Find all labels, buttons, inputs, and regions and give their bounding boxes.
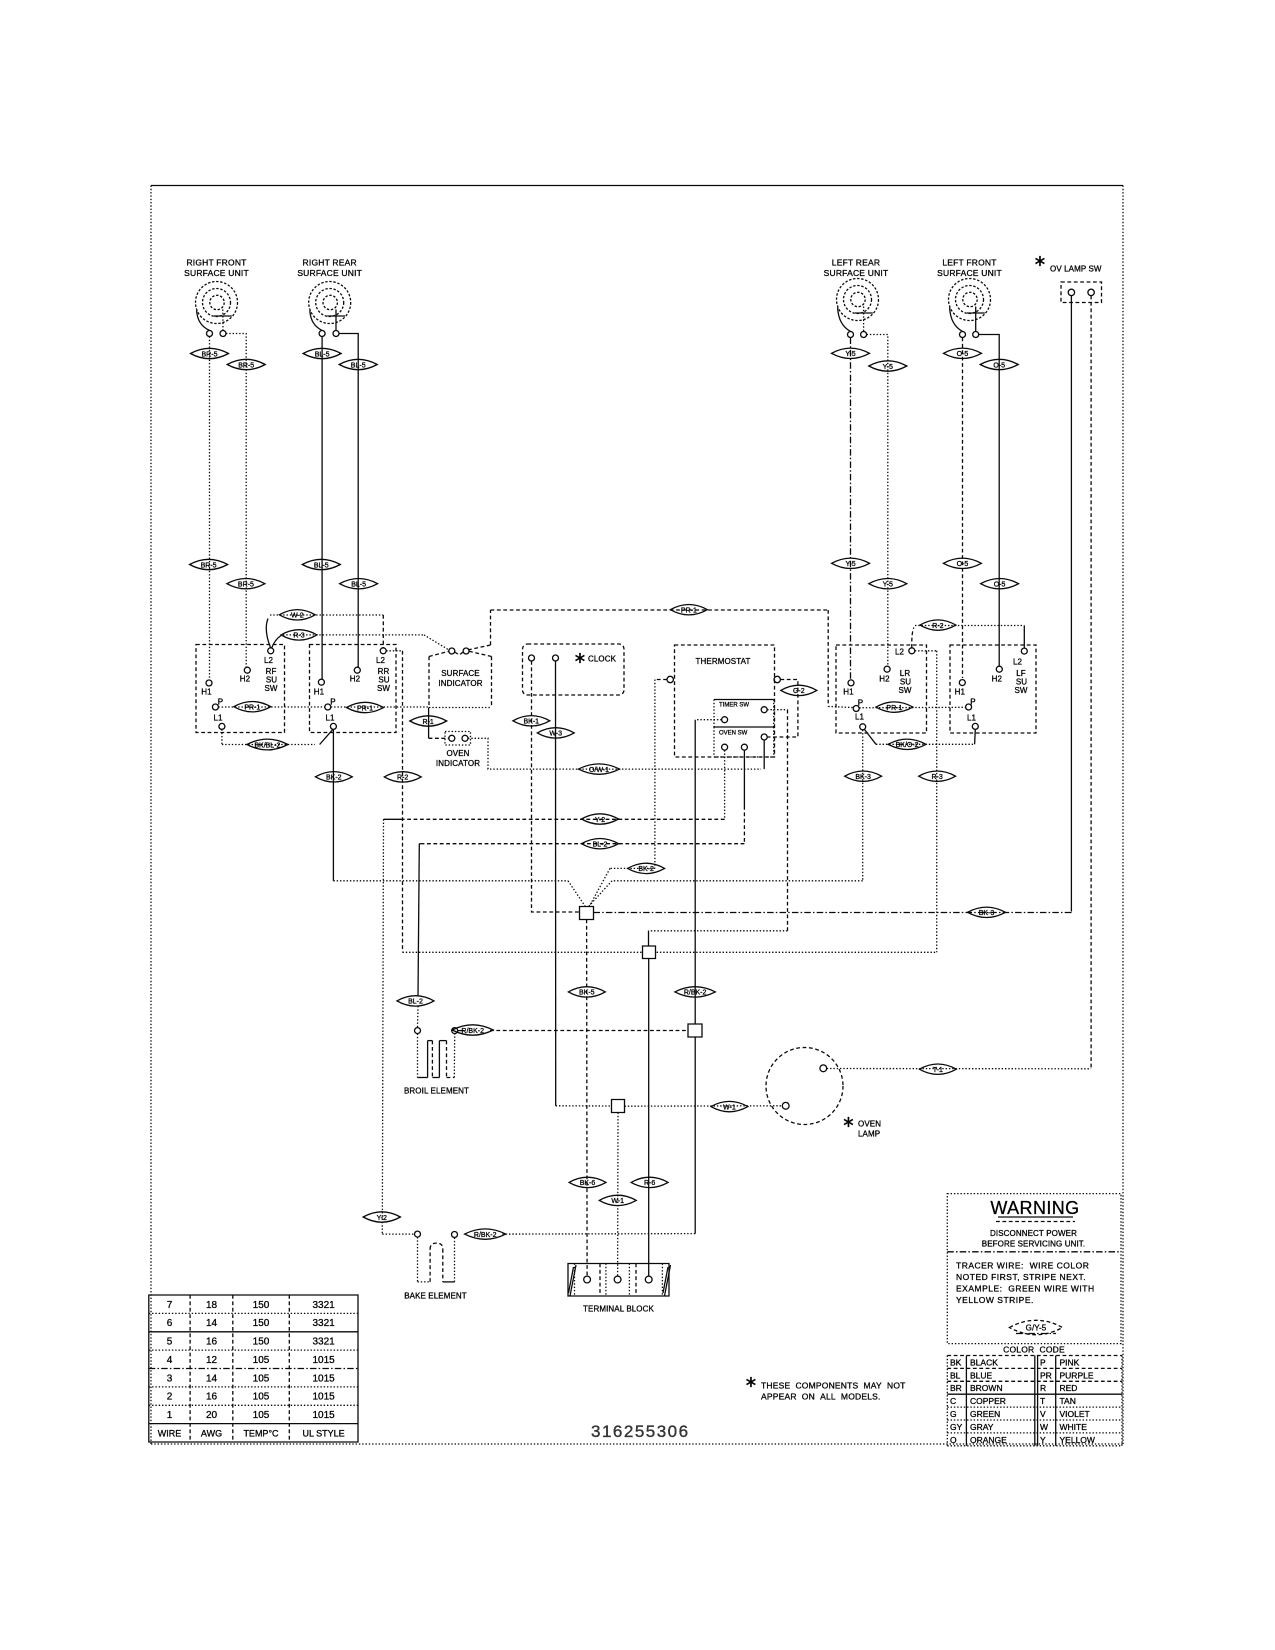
svg-text:BL-5: BL-5 — [351, 362, 366, 369]
svg-text:R-6: R-6 — [644, 1180, 655, 1187]
label G/Y-5 example — [1010, 1320, 1063, 1334]
svg-text:BR-5: BR-5 — [238, 582, 254, 589]
surface unit LR coil — [837, 279, 879, 332]
clock terminals — [529, 655, 559, 661]
svg-text:20: 20 — [206, 1410, 218, 1421]
bake element — [415, 1231, 458, 1282]
svg-text:BK: BK — [950, 1357, 962, 1367]
surface unit RR pins — [319, 331, 339, 337]
note these components — [761, 1381, 906, 1402]
svg-text:PR-1: PR-1 — [886, 705, 902, 712]
svg-text:P: P — [330, 698, 335, 707]
svg-text:GRAY: GRAY — [970, 1422, 994, 1432]
svg-text:BAKE ELEMENT: BAKE ELEMENT — [404, 1292, 467, 1301]
wire P chain LR to LF — [859, 706, 965, 709]
OV LAMP SW pins — [1068, 289, 1094, 295]
indicator OVEN INDICATOR box — [445, 732, 471, 746]
svg-text:SW: SW — [1014, 686, 1027, 695]
svg-text:OVEN SW: OVEN SW — [719, 731, 748, 737]
surface unit RR coil — [309, 282, 351, 331]
svg-text:∗: ∗ — [842, 1114, 855, 1131]
wire gauge table — [149, 1295, 358, 1442]
OV LAMP SW label — [1050, 265, 1102, 274]
svg-text:BK-2: BK-2 — [638, 866, 654, 873]
label BL-5 mid left — [302, 559, 340, 569]
svg-text:RED: RED — [1060, 1383, 1078, 1393]
svg-text:P: P — [970, 698, 975, 707]
svg-text:YELLOW STRIPE.: YELLOW STRIPE. — [956, 1295, 1034, 1305]
color code title — [1003, 1345, 1065, 1355]
svg-text:W: W — [1040, 1422, 1048, 1432]
svg-text:1015: 1015 — [312, 1410, 335, 1421]
label BK-5 — [568, 987, 605, 997]
svg-text:T: T — [1040, 1396, 1045, 1406]
svg-text:V: V — [1040, 1409, 1046, 1419]
svg-text:SURFACE: SURFACE — [441, 669, 480, 678]
wire R-2 link LR L2 to LF L2 — [912, 626, 1025, 649]
label Y-5 upper right — [869, 361, 907, 371]
svg-text:H1: H1 — [314, 688, 325, 697]
junction square 4 — [612, 1100, 625, 1113]
tracer wire note — [956, 1261, 1095, 1306]
oven lamp — [766, 1048, 843, 1125]
label R-2 mid — [384, 772, 421, 782]
svg-text:EXAMPLE: GREEN WIRE WITH: EXAMPLE: GREEN WIRE WITH — [956, 1284, 1095, 1294]
svg-text:14: 14 — [206, 1318, 218, 1329]
surface unit LF label — [937, 258, 1002, 279]
svg-text:BK-5: BK-5 — [579, 990, 595, 997]
svg-text:WHITE: WHITE — [1060, 1422, 1088, 1432]
svg-text:Y-5: Y-5 — [845, 351, 855, 358]
svg-text:WIRE: WIRE — [158, 1428, 182, 1438]
oven sw label — [719, 731, 748, 737]
svg-text:TIMER SW: TIMER SW — [719, 703, 749, 709]
label BR-5 upper left — [191, 348, 229, 358]
svg-text:RIGHT FRONT: RIGHT FRONT — [186, 258, 246, 268]
label BK-2 left — [315, 772, 352, 782]
svg-text:G: G — [950, 1409, 957, 1419]
label W-2 — [279, 610, 315, 620]
svg-text:BL-5: BL-5 — [315, 351, 330, 358]
label T-1 — [919, 1064, 956, 1074]
label R/BK-2 broil — [452, 1025, 493, 1035]
wire timer sw left down (R/BK) — [695, 720, 721, 1024]
wire thermostat left to junction — [590, 680, 668, 907]
label Y-2 upper — [581, 814, 618, 824]
svg-text:R-3: R-3 — [293, 633, 304, 640]
wire LR H1 drop — [850, 338, 852, 681]
svg-text:YELLOW: YELLOW — [1060, 1435, 1095, 1445]
svg-text:BK-2: BK-2 — [326, 775, 342, 782]
warning title — [990, 1198, 1079, 1222]
label R-3 — [281, 630, 317, 640]
svg-text:BK-1: BK-1 — [524, 719, 540, 726]
svg-text:GY: GY — [950, 1422, 963, 1432]
wire R-2 RR L2 down — [386, 651, 402, 953]
svg-text:1015: 1015 — [312, 1355, 335, 1366]
LR SU SW terminals — [848, 648, 915, 730]
svg-text:SURFACE UNIT: SURFACE UNIT — [937, 268, 1002, 278]
clock label — [588, 655, 617, 664]
wire LF H2 drop — [979, 335, 1000, 667]
svg-text:BL-2: BL-2 — [593, 842, 608, 849]
label O-5 mid right — [981, 579, 1019, 589]
svg-text:5: 5 — [167, 1337, 173, 1348]
label BL-5 upper left — [303, 348, 341, 358]
svg-text:OV LAMP SW: OV LAMP SW — [1050, 265, 1102, 274]
svg-text:W-2: W-2 — [291, 613, 304, 620]
svg-text:7: 7 — [167, 1300, 173, 1311]
border frame — [151, 186, 1123, 1445]
svg-text:16: 16 — [206, 1337, 218, 1348]
label R/BK-2 bake — [465, 1229, 506, 1239]
svg-text:BL-5: BL-5 — [351, 582, 366, 589]
label BR-5 mid right — [227, 579, 265, 589]
RF SU SW pin labels — [201, 656, 278, 723]
oven sw terminals — [722, 734, 768, 750]
wire W-3 clock down — [555, 661, 557, 1106]
surface unit RF coil — [196, 282, 238, 331]
thermostat terminals — [667, 676, 780, 682]
wire BK-5 junction down to terminal block — [586, 920, 589, 1277]
svg-text:BL-2: BL-2 — [408, 999, 423, 1006]
svg-text:L1: L1 — [213, 714, 223, 723]
svg-text:NOTED FIRST, STRIPE NEXT.: NOTED FIRST, STRIPE NEXT. — [956, 1272, 1086, 1282]
wire RR H2 drop — [339, 334, 358, 668]
LR SU SW pin labels — [843, 648, 912, 722]
color code table text — [950, 1357, 1095, 1444]
svg-text:L1: L1 — [325, 714, 335, 723]
terminal block terminals — [584, 1276, 652, 1283]
svg-text:COPPER: COPPER — [970, 1396, 1006, 1406]
terminal block label — [583, 1305, 654, 1314]
broil element label — [404, 1087, 469, 1096]
wire BK/BL-2 RF L1 to RR L1 — [222, 729, 333, 744]
SURFACE INDICATOR terminals — [449, 648, 469, 654]
svg-text:105: 105 — [253, 1410, 270, 1421]
svg-text:PINK: PINK — [1060, 1357, 1080, 1367]
svg-text:LAMP: LAMP — [858, 1130, 880, 1139]
svg-text:3321: 3321 — [312, 1300, 335, 1311]
surface unit RR label — [297, 258, 362, 279]
broil element — [415, 1028, 458, 1078]
svg-text:SURFACE UNIT: SURFACE UNIT — [297, 268, 362, 278]
surface unit LR pins — [848, 332, 867, 338]
svg-text:18: 18 — [206, 1300, 218, 1311]
thermostat label — [696, 657, 751, 666]
svg-text:THERMOSTAT: THERMOSTAT — [696, 657, 751, 666]
color code table — [947, 1356, 1122, 1446]
label Y-5 upper left — [832, 348, 870, 358]
svg-text:T-1: T-1 — [933, 1067, 943, 1074]
asterisk clock — [573, 650, 586, 667]
switch OV LAMP SW box — [1061, 282, 1102, 303]
svg-text:APPEAR ON ALL MODELS.: APPEAR ON ALL MODELS. — [761, 1392, 881, 1402]
svg-text:BK-6: BK-6 — [580, 1180, 596, 1187]
svg-text:O: O — [950, 1435, 957, 1445]
svg-text:O-5: O-5 — [957, 561, 969, 568]
wire P chain RF to RR — [218, 706, 324, 708]
svg-text:3: 3 — [167, 1373, 173, 1384]
wire OV lamp sw right drop — [1090, 296, 1092, 1069]
svg-text:CLOCK: CLOCK — [588, 655, 617, 664]
wire BK/O-2 LR L1 to LF L1 — [865, 730, 976, 745]
label R-3 mid — [919, 771, 956, 781]
svg-text:R-1: R-1 — [423, 719, 434, 726]
svg-text:OVEN: OVEN — [858, 1120, 881, 1129]
svg-text:O-5: O-5 — [957, 351, 969, 358]
label W-3 — [537, 728, 574, 738]
label Y-5 mid right — [869, 579, 907, 589]
label Y-5 mid left — [832, 558, 870, 568]
terminal block — [568, 1264, 671, 1297]
svg-text:INDICATOR: INDICATOR — [438, 679, 482, 688]
junction square 1 — [580, 907, 594, 920]
svg-text:OVEN: OVEN — [446, 749, 469, 758]
svg-text:SW: SW — [898, 686, 911, 695]
label R-1 — [410, 716, 447, 726]
wire timer sw right to junction 2 — [649, 710, 788, 946]
svg-text:LEFT REAR: LEFT REAR — [832, 258, 880, 268]
switch RR SU SW box — [310, 645, 397, 733]
svg-text:L1: L1 — [855, 713, 865, 722]
svg-text:Y-5: Y-5 — [883, 364, 893, 371]
svg-text:AWG: AWG — [201, 1428, 222, 1438]
svg-text:1015: 1015 — [312, 1373, 335, 1384]
timer sw terminals — [722, 707, 768, 723]
label BK-1 — [513, 716, 550, 726]
warning box — [947, 1194, 1121, 1344]
thermostat box — [675, 645, 775, 757]
svg-text:150: 150 — [253, 1337, 270, 1348]
svg-text:SW: SW — [264, 684, 277, 693]
wire R-1 surface indicator to oven indicator — [429, 708, 449, 739]
svg-text:4: 4 — [167, 1355, 173, 1366]
label PR-1 right — [876, 702, 913, 712]
svg-text:2: 2 — [167, 1392, 173, 1403]
timer sw box — [714, 700, 774, 728]
label R-2 top — [920, 620, 956, 630]
RF SU SW terminals — [206, 648, 274, 730]
svg-text:316255306: 316255306 — [591, 1422, 690, 1441]
label W-1 lamp — [711, 1101, 748, 1111]
svg-text:14: 14 — [206, 1373, 218, 1384]
wire RF H2 drop — [226, 334, 246, 668]
svg-text:R/BK-2: R/BK-2 — [474, 1232, 497, 1239]
svg-text:BR-5: BR-5 — [202, 351, 218, 358]
LF SU SW pin labels — [955, 658, 1028, 723]
asterisk oven lamp — [842, 1114, 855, 1131]
oven lamp terminals — [782, 1065, 826, 1109]
svg-text:BROWN: BROWN — [970, 1383, 1003, 1393]
svg-text:W-1: W-1 — [723, 1104, 736, 1111]
svg-text:105: 105 — [253, 1373, 270, 1384]
svg-text:105: 105 — [253, 1392, 270, 1403]
wire RF H1 drop — [209, 337, 211, 681]
svg-text:BK/O-2: BK/O-2 — [896, 742, 919, 749]
RR SU SW terminals — [318, 648, 386, 730]
part number 316255306 — [591, 1422, 690, 1441]
svg-text:H1: H1 — [201, 688, 212, 697]
svg-text:GREEN: GREEN — [970, 1409, 1000, 1419]
svg-text:O/W-1: O/W-1 — [589, 767, 609, 774]
svg-text:L2: L2 — [376, 656, 386, 665]
svg-text:BEFORE SERVICING UNIT.: BEFORE SERVICING UNIT. — [982, 1240, 1085, 1249]
svg-text:G-2: G-2 — [793, 688, 805, 695]
switch LF SU SW box — [950, 645, 1036, 733]
svg-text:BROIL ELEMENT: BROIL ELEMENT — [404, 1087, 469, 1096]
asterisk OV lamp sw — [1033, 253, 1046, 270]
label Y-2 lower — [363, 1212, 400, 1222]
wire BL-2 oven sw to broil element — [418, 750, 745, 1027]
label BR-5 mid left — [190, 559, 228, 569]
wire R-3 from RF L2 to surface indicator — [272, 635, 450, 650]
svg-text:R-3: R-3 — [931, 774, 942, 781]
svg-text:Y-5: Y-5 — [845, 561, 855, 568]
warning text — [982, 1229, 1085, 1249]
svg-text:∗: ∗ — [1033, 253, 1046, 270]
OVEN INDICATOR label — [436, 749, 480, 768]
svg-text:150: 150 — [253, 1318, 270, 1329]
svg-text:H2: H2 — [992, 675, 1003, 684]
svg-text:12: 12 — [206, 1355, 218, 1366]
svg-text:THESE COMPONENTS MAY NOT: THESE COMPONENTS MAY NOT — [761, 1381, 906, 1391]
surface unit RF label — [184, 258, 249, 279]
svg-text:BR: BR — [950, 1383, 962, 1393]
wire RR H1 drop — [321, 337, 323, 680]
svg-text:SURFACE UNIT: SURFACE UNIT — [824, 268, 889, 278]
svg-text:105: 105 — [253, 1355, 270, 1366]
svg-text:PURPLE: PURPLE — [1060, 1370, 1094, 1380]
switch RF SU SW box — [196, 645, 285, 733]
svg-text:PR-1: PR-1 — [681, 608, 697, 615]
label BK-3 left — [845, 771, 882, 781]
SURFACE INDICATOR label — [438, 669, 482, 688]
wire W-2 from RF L2 to RR L2 — [266, 615, 383, 648]
svg-text:PR: PR — [1040, 1370, 1052, 1380]
svg-text:R/BK-2: R/BK-2 — [684, 990, 707, 997]
svg-text:Y: Y — [1040, 1435, 1046, 1445]
svg-text:R/BK-2: R/BK-2 — [461, 1028, 484, 1035]
label BR-5 upper right — [227, 359, 265, 369]
svg-text:BK-3: BK-3 — [855, 774, 871, 781]
svg-text:G/Y-5: G/Y-5 — [1026, 1324, 1047, 1333]
label R/BK-2 vertical — [675, 987, 715, 997]
svg-text:L2: L2 — [264, 656, 274, 665]
wire BK-3 LR L1 down to junction — [589, 730, 863, 906]
wire OV lamp sw left drop — [1070, 296, 1072, 912]
surface unit LF pins — [960, 332, 979, 338]
svg-text:LEFT FRONT: LEFT FRONT — [942, 258, 996, 268]
svg-text:DISCONNECT POWER: DISCONNECT POWER — [990, 1229, 1077, 1238]
wire Y-2 oven sw to bake element — [382, 750, 724, 1234]
svg-text:L2: L2 — [1013, 658, 1023, 667]
wire R-3 LR L2 down — [915, 651, 937, 953]
svg-text:∗: ∗ — [744, 1374, 757, 1391]
bake element label — [404, 1292, 467, 1301]
wire gauge table text — [158, 1300, 345, 1439]
svg-text:PR-1: PR-1 — [244, 705, 260, 712]
svg-text:TRACER WIRE: WIRE COLOR: TRACER WIRE: WIRE COLOR — [956, 1261, 1089, 1271]
wire BK-3 junction to OV lamp sw — [594, 912, 1072, 913]
svg-text:3321: 3321 — [312, 1337, 335, 1348]
wire LR H2 drop — [867, 335, 888, 667]
label G-2 — [781, 685, 817, 695]
label BK-3 right — [968, 907, 1006, 917]
svg-text:BL-5: BL-5 — [314, 562, 329, 569]
svg-text:C: C — [950, 1396, 956, 1406]
svg-text:R-2: R-2 — [397, 775, 408, 782]
svg-text:PR-1: PR-1 — [357, 705, 373, 712]
label BK/O-2 — [888, 739, 926, 749]
label BL-5 mid right — [340, 579, 378, 589]
svg-text:H1: H1 — [843, 688, 854, 697]
svg-text:H2: H2 — [350, 675, 361, 684]
svg-text:UL STYLE: UL STYLE — [303, 1428, 345, 1438]
wire BK-2 RR L1 down to junction — [333, 729, 585, 906]
svg-text:BLUE: BLUE — [970, 1370, 993, 1380]
label PR-1 mid — [347, 702, 384, 712]
svg-text:VIOLET: VIOLET — [1060, 1409, 1090, 1419]
wire W-3 to oven lamp — [556, 1105, 783, 1107]
label PR-1 top — [670, 605, 707, 615]
svg-text:L2: L2 — [895, 648, 905, 657]
svg-text:∗: ∗ — [573, 650, 586, 667]
svg-text:3321: 3321 — [312, 1318, 335, 1329]
svg-text:BLACK: BLACK — [970, 1357, 998, 1367]
svg-text:P: P — [218, 698, 223, 707]
wire R/BK-2 junction 3 to bake element — [502, 1037, 695, 1234]
label O-5 upper right — [980, 359, 1018, 369]
svg-text:6: 6 — [167, 1318, 173, 1329]
svg-text:Y-5: Y-5 — [883, 582, 893, 589]
svg-text:RIGHT REAR: RIGHT REAR — [303, 258, 357, 268]
wire R/BK-2 broil to junction 3 — [458, 1030, 688, 1032]
label BK-6 — [569, 1177, 606, 1187]
wire T-1 OV lamp sw to oven lamp — [827, 1068, 1091, 1070]
svg-text:Y-2: Y-2 — [377, 1215, 387, 1222]
svg-text:O-5: O-5 — [993, 362, 1005, 369]
OVEN INDICATOR terminals — [449, 735, 468, 741]
svg-text:BR-5: BR-5 — [201, 562, 217, 569]
svg-text:SURFACE UNIT: SURFACE UNIT — [184, 268, 249, 278]
svg-text:WARNING: WARNING — [990, 1198, 1079, 1218]
indicator SURFACE INDICATOR box — [429, 651, 492, 707]
svg-text:W-1: W-1 — [611, 1198, 624, 1205]
svg-text:TEMP°C: TEMP°C — [243, 1428, 279, 1438]
label BL-5 upper right — [339, 359, 377, 369]
label BL-2 upper — [581, 839, 618, 849]
wire G-2 thermostat to oven sw — [767, 680, 798, 738]
asterisk note — [744, 1374, 757, 1391]
wire R-6 junction 2 to terminal block — [648, 959, 650, 1277]
RR SU SW pin labels — [314, 656, 391, 723]
wire PR-1 from surface indicator to LR P — [468, 610, 854, 708]
junction square 3 — [688, 1024, 702, 1037]
svg-text:O-5: O-5 — [994, 582, 1006, 589]
LF SU SW terminals — [959, 648, 1027, 729]
svg-text:R-2: R-2 — [932, 623, 943, 630]
svg-text:BL: BL — [950, 1370, 961, 1380]
label BL-2 lower — [397, 996, 434, 1006]
svg-text:BR-5: BR-5 — [238, 362, 254, 369]
label O/W-1 — [578, 764, 619, 774]
svg-text:P: P — [1040, 1357, 1046, 1367]
wire LF H1 drop — [962, 338, 964, 679]
svg-text:16: 16 — [206, 1392, 218, 1403]
svg-text:ORANGE: ORANGE — [970, 1435, 1007, 1445]
svg-text:Y-2: Y-2 — [595, 817, 605, 824]
